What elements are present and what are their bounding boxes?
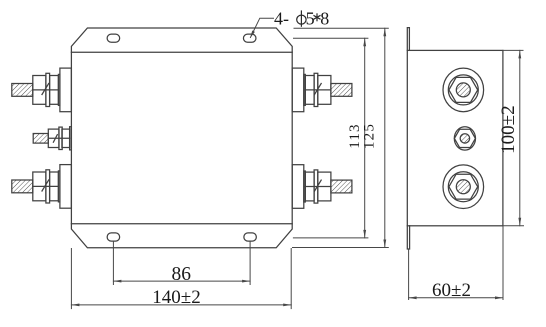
- terminal L1 stud: [12, 84, 33, 97]
- dim 140 line: [71, 304, 291, 306]
- bottom flange line: [71, 223, 292, 225]
- mounting hole bottom-right: [244, 233, 257, 241]
- dim 100 line: [519, 50, 521, 225]
- terminal L3 disc: [58, 171, 60, 202]
- terminal L1 washer: [46, 73, 50, 106]
- terminal L3 centerline: [33, 185, 59, 187]
- bolt B2 stud end: [460, 134, 469, 143]
- svg-text:100±2: 100±2: [498, 105, 519, 153]
- bolt B3 hex nut: [449, 174, 478, 199]
- dim 113 line: [364, 38, 366, 238]
- dim 113 top extension line: [294, 37, 368, 39]
- terminal L1 nut: [33, 76, 46, 105]
- svg-text:60±2: 60±2: [432, 280, 471, 301]
- dim 60 right extension line: [502, 226, 504, 300]
- bolt B2 hex nut: [454, 129, 475, 147]
- terminal L1 slash: [42, 84, 49, 95]
- side view body: [407, 50, 503, 225]
- terminal L1 collar: [50, 76, 59, 105]
- svg-text:140±2: 140±2: [152, 287, 200, 308]
- svg-text:86: 86: [171, 264, 191, 285]
- dim 125 top extension line: [294, 27, 388, 29]
- terminal R1 collar: [305, 76, 314, 105]
- svg-text:8: 8: [320, 8, 329, 28]
- bolt B1 outer circle: [443, 68, 484, 112]
- terminal R2 insulator block: [292, 165, 304, 209]
- terminal L3 insulator block: [60, 165, 72, 209]
- terminal L2 centerline: [48, 137, 69, 139]
- terminal L1 insulator block: [60, 68, 72, 112]
- top flange line: [71, 51, 292, 53]
- terminal L2 (small earth) disc: [70, 127, 72, 150]
- terminal L2 slash: [53, 135, 57, 143]
- dim 100 bottom extension line: [503, 225, 524, 227]
- arrow dim60 right: [495, 296, 503, 299]
- arrow dim125 bottom: [383, 240, 386, 248]
- dim 125 bottom extension line: [293, 247, 389, 249]
- terminal L3 slash: [42, 180, 49, 191]
- terminal R2 collar: [305, 172, 314, 201]
- dim 86 right extension line: [249, 242, 251, 285]
- dim 100 top extension line: [503, 49, 523, 51]
- dim 60 left extension line: [408, 250, 410, 300]
- terminal R1 washer: [314, 73, 318, 106]
- terminal R2 washer: [314, 170, 318, 203]
- terminal R2 nut: [318, 172, 331, 201]
- front view case outline: [71, 28, 292, 248]
- terminal L1 centerline: [33, 89, 59, 91]
- leader line for hole callout: [250, 18, 273, 37]
- dim 86 line: [113, 280, 250, 282]
- bolt B1 ring circle: [448, 75, 478, 105]
- terminal R1 disc: [304, 74, 306, 105]
- side view bottom flange tab: [407, 226, 409, 249]
- symbol phi: [297, 15, 306, 24]
- arrow dim140 left: [71, 304, 79, 307]
- terminal R1 nut: [318, 76, 331, 105]
- svg-text:5: 5: [306, 8, 315, 28]
- bolt B1 hex nut: [449, 77, 478, 102]
- side view top flange tab: [407, 28, 409, 51]
- dim 60 line: [409, 297, 503, 299]
- terminal L3 stud: [12, 180, 33, 193]
- leader dash before text: [152, 8, 519, 308]
- dim 140 right extension line: [290, 249, 292, 309]
- terminal L2 nut: [48, 129, 59, 147]
- terminal R2 slash: [315, 180, 322, 191]
- terminal L3 washer: [46, 170, 50, 203]
- arrow dim125 top: [383, 28, 386, 36]
- terminal R2 centerline: [305, 186, 331, 188]
- mounting hole top-left: [107, 34, 120, 42]
- bolt B3 outer circle: [443, 165, 484, 209]
- arrow dim100 bottom: [518, 218, 521, 226]
- arrow dim86 left: [113, 280, 121, 283]
- terminal R1 slash: [315, 84, 322, 95]
- arrow dim113 bottom: [363, 230, 366, 238]
- mounting hole bottom-left: [107, 233, 120, 241]
- dim 125 line: [384, 28, 386, 247]
- arrow dim113 top: [363, 38, 366, 46]
- terminal L2 washer: [59, 127, 62, 149]
- svg-text:4-: 4-: [274, 8, 289, 28]
- terminal L2 collar: [62, 129, 70, 147]
- svg-text:125: 125: [362, 123, 378, 149]
- terminal L3 collar: [50, 172, 59, 201]
- dim 140 left extension line: [70, 249, 72, 309]
- mounting hole top-right: [243, 34, 256, 42]
- symbol asterisk: [314, 14, 320, 21]
- arrow dim100 top: [518, 50, 521, 58]
- terminal R2 stud: [331, 180, 352, 193]
- terminal L3 nut: [33, 172, 46, 201]
- arrow dim60 left: [409, 296, 417, 299]
- bolt B1 stud end: [456, 83, 470, 97]
- arrow dim86 right: [242, 280, 250, 283]
- dim 113 bottom extension line: [293, 237, 368, 239]
- bolt B3 stud end: [456, 180, 470, 194]
- terminal L2 stud: [33, 134, 48, 144]
- bolt B2 outer circle: [454, 127, 475, 150]
- dim 86 left extension line: [112, 242, 114, 285]
- bolt B3 ring circle: [448, 172, 478, 202]
- arrow leader: [250, 31, 255, 39]
- arrow dim140 right: [283, 304, 291, 307]
- terminal R1 insulator block: [292, 68, 304, 112]
- terminal L1 disc: [58, 74, 60, 105]
- terminal R1 stud: [331, 84, 352, 97]
- terminal R1 centerline: [305, 89, 331, 91]
- terminal R2 disc: [304, 171, 306, 202]
